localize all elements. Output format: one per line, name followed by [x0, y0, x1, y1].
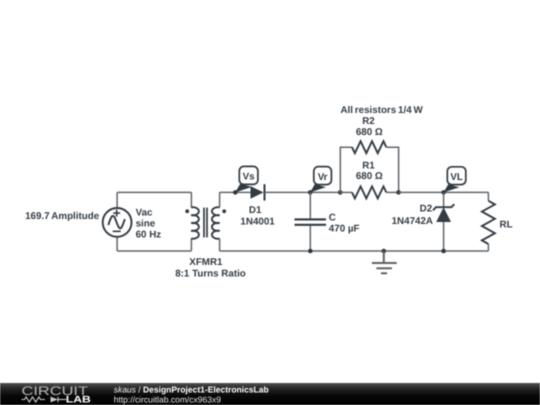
- svg-text:470 µF: 470 µF: [329, 224, 360, 235]
- voltage source V1 (Vac sine 60 Hz): [103, 208, 132, 237]
- svg-text:Vs: Vs: [243, 172, 256, 183]
- probe VL flag: [444, 184, 460, 192]
- svg-text:R2: R2: [362, 116, 375, 127]
- svg-text:LAB: LAB: [66, 395, 91, 405]
- resistor RL: [482, 201, 495, 244]
- transformer XFMR1 primary winding: [191, 207, 199, 239]
- probe Vs flag: [235, 184, 252, 193]
- transformer secondary phase dot: [222, 209, 226, 213]
- wire: RL right branch top lead: [487, 192, 489, 200]
- wire: R1 left lead: [340, 191, 352, 193]
- svg-text:680 Ω: 680 Ω: [356, 127, 383, 138]
- wire: source bottom lead: [116, 237, 118, 251]
- capacitor C 470uF: [295, 219, 327, 224]
- transformer XFMR1 secondary winding: [212, 207, 220, 239]
- wire: bottom rail: [220, 250, 489, 252]
- resistor R2 680 ohm: [352, 141, 386, 153]
- CircuitLab logo resistor-diode glyph: [22, 397, 67, 402]
- svg-text:http://circuitlab.com/cx963x9: http://circuitlab.com/cx963x9: [114, 394, 222, 404]
- node Vs junction: [233, 190, 238, 195]
- wire: primary loop top: [117, 191, 191, 193]
- wire: transformer secondary top lead: [219, 192, 221, 207]
- svg-text:Vac: Vac: [136, 208, 153, 219]
- svg-text:169.7 Amplitude: 169.7 Amplitude: [25, 211, 100, 222]
- node R right junction: [396, 190, 401, 195]
- svg-text:D2: D2: [420, 204, 433, 215]
- svg-text:C: C: [329, 213, 336, 224]
- svg-text:60 Hz: 60 Hz: [136, 229, 162, 240]
- svg-text:Vr: Vr: [318, 172, 328, 183]
- diode D1 1N4001: [251, 186, 264, 199]
- wire: R2 loop left vertical: [340, 147, 352, 192]
- probe Vr flag: [310, 184, 326, 192]
- transformer primary phase dot: [185, 209, 189, 213]
- footer bar: [0, 383, 540, 405]
- svg-text:VL: VL: [450, 172, 463, 183]
- wire: RL bottom lead: [487, 244, 489, 251]
- wire: capacitor bottom lead: [309, 226, 311, 251]
- svg-text:RL: RL: [500, 220, 513, 231]
- wire: transformer primary top lead: [190, 192, 192, 207]
- node Vr junction: [308, 190, 313, 195]
- svg-text:All resistors 1/4 W: All resistors 1/4 W: [340, 105, 423, 116]
- probe Vr box: [314, 167, 332, 185]
- node capacitor bottom junction: [308, 249, 313, 254]
- node D2 bottom junction: [441, 249, 446, 254]
- wire: R2 loop right vertical: [386, 147, 398, 192]
- node ground junction: [382, 249, 387, 254]
- probe VL box: [447, 167, 466, 185]
- node VL junction: [441, 190, 446, 195]
- wire: primary loop bottom: [117, 250, 191, 252]
- svg-text:8:1 Turns Ratio: 8:1 Turns Ratio: [175, 269, 246, 280]
- svg-text:D1: D1: [249, 205, 262, 216]
- wire: source top lead: [116, 192, 118, 208]
- wire: transformer secondary bottom lead: [219, 239, 221, 251]
- node R left junction: [338, 190, 343, 195]
- wire: R right to RL corner: [399, 191, 489, 193]
- zener diode D2 1N4742A: [433, 204, 454, 210]
- svg-text:skaus / DesignProject1-Electro: skaus / DesignProject1-ElectronicsLab: [114, 385, 269, 395]
- wire: D1 to Vr node: [265, 191, 341, 193]
- ground symbol: [372, 251, 397, 273]
- wire: transformer primary bottom lead: [190, 239, 192, 251]
- svg-text:1N4742A: 1N4742A: [392, 216, 433, 227]
- svg-text:XFMR1: XFMR1: [189, 257, 223, 268]
- transformer XFMR1 core: [204, 208, 207, 238]
- resistor R1 680 ohm: [352, 186, 386, 198]
- wire: zener D2 bottom lead: [443, 222, 445, 251]
- wire: R1 right lead: [386, 191, 398, 193]
- wire: secondary top to D1: [220, 191, 251, 193]
- wire: zener D2 top lead: [443, 192, 445, 207]
- probe Vs box: [239, 166, 258, 184]
- svg-text:680 Ω: 680 Ω: [356, 171, 383, 182]
- wire: capacitor top lead: [309, 192, 311, 218]
- svg-text:sine: sine: [136, 218, 156, 229]
- svg-text:1N4001: 1N4001: [240, 216, 275, 227]
